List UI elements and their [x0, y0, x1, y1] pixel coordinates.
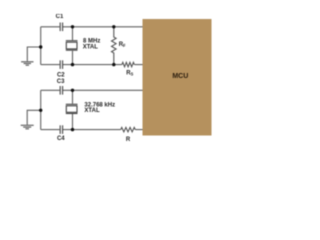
node: junction dots bottom circuit [39, 89, 74, 132]
resistor R (series, horizontal) [121, 127, 136, 142]
wire: crystal Y1 branch [72, 27, 74, 65]
crystal Y2 32.768 kHz [66, 102, 115, 114]
resistor RF (feedback, vertical) [112, 27, 127, 65]
capacitor C3 [57, 79, 65, 94]
svg-text:XTAL: XTAL [83, 44, 99, 50]
ground (top circuit) [21, 62, 33, 65]
svg-text:RS: RS [126, 71, 133, 77]
svg-text:MCU: MCU [172, 73, 188, 80]
wire: top circuit left vertical rail [40, 27, 42, 65]
svg-text:RF: RF [119, 42, 126, 48]
ground (bottom circuit) [21, 125, 34, 129]
capacitor C4 [57, 125, 65, 142]
svg-text:R: R [126, 137, 131, 143]
wire: top ground tap [27, 47, 40, 61]
capacitor C2 [57, 60, 65, 78]
MCU U1 [143, 19, 212, 136]
wire: bottom ground tap [27, 110, 41, 125]
capacitor C1 [56, 14, 64, 31]
svg-text:XTAL: XTAL [84, 108, 100, 114]
wire: bottom circuit bottom rail (OSC32_OUT) [41, 129, 143, 131]
svg-text:C2: C2 [57, 73, 65, 79]
wire: top circuit bottom rail (OSC_OUT) [41, 64, 143, 66]
wire: bottom circuit left vertical rail [40, 90, 42, 129]
svg-text:C4: C4 [57, 136, 65, 142]
wire: crystal Y2 branch [72, 90, 74, 129]
wire: top circuit top rail (OSC_IN) [41, 26, 143, 28]
node: junction dots top circuit [39, 25, 116, 66]
svg-text:C3: C3 [57, 79, 65, 85]
crystal Y1 8 MHz [66, 39, 101, 51]
resistor RS (series, horizontal) [122, 62, 134, 76]
svg-text:C1: C1 [56, 14, 64, 20]
wire: bottom circuit top rail (OSC32_IN) [41, 89, 143, 91]
